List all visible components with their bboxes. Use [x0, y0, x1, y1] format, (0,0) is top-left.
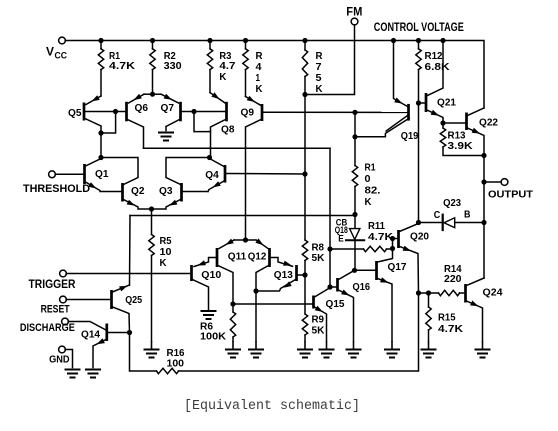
junction Q12 collector Q13 emitter gnd	[253, 288, 258, 293]
transistor Q7	[179, 102, 182, 122]
junction control voltage node	[302, 92, 307, 97]
transistor Q15	[312, 296, 315, 309]
wire Q23 anode to output	[455, 222, 484, 224]
junction Q3 Q4 Q8 collectors	[207, 155, 212, 160]
wire R7 top lead	[304, 41, 306, 51]
arrowhead Q6 emitter	[134, 94, 142, 100]
junction R2 emitters node	[150, 92, 155, 97]
transistor Q25	[110, 290, 113, 309]
wire Q6 base	[116, 111, 127, 113]
arrowhead Q20 emitter	[403, 246, 411, 251]
svg-text:3.9K: 3.9K	[448, 140, 473, 152]
junction Q20 collector Q23	[416, 220, 421, 225]
svg-text:Q17: Q17	[388, 261, 407, 273]
wire R15 bottom lead	[428, 330, 430, 341]
wire Q3 base from Q4 emitter	[183, 191, 209, 193]
ground Q24 stem	[482, 341, 484, 350]
wire Q19 emitter2 upper	[386, 115, 408, 131]
arrowhead Q5 emitter	[92, 95, 100, 101]
wire Q15 base line	[233, 303, 313, 305]
wire Q6 emitter diagonal	[129, 94, 145, 103]
junction Q19 emitter2 to R10	[352, 134, 357, 139]
svg-text:Q3: Q3	[159, 185, 173, 197]
wire R11 right lead	[387, 248, 393, 250]
wire R15 top lead	[428, 293, 430, 307]
svg-text:Q7: Q7	[161, 102, 175, 114]
svg-text:Q8: Q8	[221, 123, 235, 135]
arrowhead Q19 emitter1	[394, 98, 402, 104]
ground Q14	[85, 370, 101, 378]
wire R7 to control voltage node	[304, 77, 306, 95]
ground Q24	[475, 350, 491, 358]
svg-text:Q6: Q6	[135, 102, 149, 114]
wire R9 bottom lead	[304, 335, 306, 341]
wire reset to Q25 base	[66, 299, 111, 301]
junction Q7 Q8 base node	[191, 109, 196, 114]
wire Q2 emitter	[124, 200, 152, 210]
wire Q12 collector	[256, 266, 269, 342]
svg-text:RESET: RESET	[41, 304, 70, 316]
wire Q1 collector	[86, 158, 102, 167]
ground Q16 emitter	[346, 350, 362, 358]
wire trigger to Q10 base	[66, 273, 191, 275]
svg-text:TRIGGER: TRIGGER	[29, 279, 77, 291]
resistor R3	[207, 49, 212, 70]
junction Q14 Q25 collector node	[127, 330, 132, 335]
arrowhead Q4 emitter	[213, 181, 221, 187]
resistor R6	[230, 312, 235, 337]
transistor Q4	[224, 165, 227, 183]
wire Q21 base column	[418, 103, 420, 223]
resistor R11	[364, 246, 387, 251]
wire Q25 emitter	[113, 307, 130, 333]
wire Q10 emitter from Q11 base	[194, 258, 217, 267]
wire Q13 emitter	[256, 280, 296, 292]
wire R13 bottom to output node	[443, 147, 484, 156]
resistor R15	[426, 307, 431, 330]
wire output terminal	[484, 181, 501, 183]
transistor Q16	[336, 278, 339, 292]
svg-text:Q24: Q24	[483, 287, 503, 299]
resistor R8	[302, 240, 307, 261]
svg-text:Q1: Q1	[95, 168, 109, 180]
arrowhead Q2 emitter	[127, 200, 135, 206]
svg-text:K: K	[316, 83, 323, 95]
wire Q12 emitter diagonal	[256, 240, 268, 249]
wire Q7-Q8 base to Q8 collector	[194, 112, 211, 132]
wire R8 top lead	[304, 174, 306, 240]
arrowhead Q1 emitter	[88, 182, 96, 188]
junction rail R1	[98, 38, 103, 43]
svg-text:DISCHARGE: DISCHARGE	[20, 322, 75, 334]
wire Q17 base	[355, 269, 377, 271]
diode Q23	[444, 218, 455, 228]
wire R3 to Q8 emitter	[209, 70, 211, 93]
wire R2 to Q6 Q7 emitters	[152, 70, 154, 95]
junction Q21 emitter R13 Q22 base	[440, 120, 445, 125]
wire R10 tap	[354, 112, 356, 136]
svg-text:Q9: Q9	[241, 106, 255, 118]
ground Q17 stem	[391, 341, 393, 350]
wire Q11 emitter	[234, 239, 246, 241]
svg-text:K: K	[160, 257, 167, 269]
diode Q18	[350, 229, 360, 240]
wire R12 top lead	[418, 41, 420, 49]
svg-text:220: 220	[444, 273, 462, 285]
svg-text:5K: 5K	[312, 252, 325, 264]
wire Q12 emitter	[246, 239, 257, 241]
svg-text:THRESHOLD: THRESHOLD	[23, 183, 90, 195]
junction Q4 base R7 R8 reference	[302, 171, 307, 176]
svg-text:330: 330	[164, 60, 182, 72]
wire discharge to Q14 base	[68, 322, 106, 331]
terminal RESET	[60, 296, 67, 303]
arrowhead Q15 emitter	[315, 306, 323, 312]
wire R14 left lead	[419, 292, 439, 294]
transistor Q5	[83, 103, 86, 121]
wire R8 bottom lead	[304, 261, 306, 315]
arrowhead Q14 emitter	[97, 338, 105, 344]
ground GND terminal	[65, 370, 81, 378]
wire reset bus	[130, 216, 355, 229]
junction Q17 base Q16 collector Q18	[352, 268, 357, 273]
transistor Q6	[125, 102, 128, 122]
wire Q4 base to reference	[226, 173, 305, 176]
junction rail Q21 collector	[440, 38, 445, 43]
wire Q18 cathode	[354, 240, 356, 270]
terminal GND	[59, 346, 66, 353]
ground Q12 stem	[255, 341, 257, 350]
svg-text:5K: 5K	[312, 325, 325, 337]
wire R4 top lead	[245, 41, 247, 49]
svg-text:Q22: Q22	[479, 116, 498, 128]
ground Q10	[201, 311, 217, 319]
resistor R2	[150, 49, 155, 70]
wire Q9 collector	[246, 120, 262, 241]
terminal TRIGGER	[60, 270, 67, 277]
junction rail R3	[207, 38, 212, 43]
ground Q15 emitter	[319, 350, 335, 358]
svg-text:4.7K: 4.7K	[438, 323, 463, 335]
terminal FM	[351, 18, 358, 25]
svg-text:OUTPUT: OUTPUT	[488, 189, 534, 201]
resistor R10	[352, 166, 357, 187]
arrowhead Q17 emitter	[380, 277, 388, 282]
arrowhead Q12 emitter	[255, 238, 263, 245]
wire FM to control-voltage node	[305, 25, 355, 95]
ground R5 stem	[151, 341, 153, 350]
wire reference divider column	[304, 95, 306, 175]
junction R11 left Q18 E node	[327, 246, 332, 251]
diode Q23 cathode bar	[442, 214, 444, 232]
wire Q7 base to Q8	[181, 111, 226, 113]
arrowhead Q21 emitter	[431, 110, 439, 116]
svg-text:R1: R1	[365, 161, 376, 173]
wire output column	[483, 156, 485, 279]
arrowhead Q8 emitter	[211, 92, 219, 99]
junction Q5 Q6 base node	[113, 109, 118, 114]
svg-text:Q13: Q13	[274, 269, 293, 281]
wire Q15 collector	[315, 288, 330, 297]
wire Q17 emitter	[378, 279, 393, 342]
ground R15	[421, 350, 437, 358]
transistor Q20	[397, 230, 400, 248]
junction base line R10 tap	[352, 110, 357, 115]
transistor Q13	[295, 265, 298, 281]
transistor Q19	[407, 104, 410, 121]
wire Q24 emitter	[467, 301, 483, 341]
wire Q8 collector	[211, 120, 226, 158]
transistor Q22	[465, 113, 468, 131]
resistor R13	[440, 128, 445, 147]
wire Q3 emitter	[152, 200, 181, 210]
svg-text:Q12: Q12	[248, 250, 267, 262]
transistor Q2	[121, 183, 124, 202]
ground Q15 stem	[326, 341, 328, 350]
arrowhead Q13 emitter top	[283, 261, 291, 266]
wire Q7 collector	[166, 120, 180, 131]
wire R2 top lead	[152, 41, 154, 49]
wire Q16 emitter	[339, 290, 354, 341]
junction Q11 Q12 emitters	[243, 237, 248, 242]
wire Q20 emitter	[400, 247, 419, 294]
wire Q16 base	[330, 286, 337, 288]
transistor Q8	[225, 102, 228, 122]
wire Q6 collector to bus	[128, 120, 144, 149]
wire Q7 emitter diagonal	[161, 94, 179, 103]
resistor R9	[302, 314, 307, 335]
wire R6 bottom lead	[232, 337, 234, 341]
ground Q16 stem	[353, 341, 355, 350]
wire Q12 base to Q13	[270, 258, 293, 267]
terminal OUTPUT	[501, 179, 508, 186]
wire Q24 collector	[467, 278, 485, 286]
arrowhead Q16 emitter	[341, 290, 349, 296]
arrowhead Q22 emitter	[472, 128, 480, 134]
arrowhead Q24 emitter	[470, 301, 478, 307]
svg-text:6.8K: 6.8K	[425, 61, 450, 73]
ground R15 stem	[428, 341, 430, 350]
svg-text:Q5: Q5	[68, 107, 82, 119]
wire Q21 base	[419, 102, 426, 104]
svg-text:100: 100	[167, 358, 185, 370]
wire R10 bottom lead	[354, 187, 356, 215]
arrowhead Q11 emitter	[226, 239, 234, 245]
terminal VCC	[59, 37, 66, 44]
resistor R14	[439, 290, 460, 295]
transistor Q24	[464, 284, 467, 303]
wire R11 left lead	[330, 248, 364, 250]
junction R10 bottom Q18 anode	[352, 212, 357, 217]
svg-text:CC: CC	[55, 50, 68, 60]
wire R3 top lead	[209, 41, 211, 49]
transistor Q3	[180, 183, 183, 202]
wire Q19 emitter1 from rail	[394, 41, 408, 107]
wire bottom rail left	[130, 333, 157, 372]
junction R8 R9 Q13 base	[302, 272, 307, 277]
wire Q14 collector	[108, 332, 130, 334]
junction rail Q19 emitter	[391, 38, 396, 43]
junction Q2 Q3 emitters R5	[149, 206, 154, 211]
junction R11 right	[390, 246, 395, 251]
svg-text:V: V	[46, 45, 54, 59]
svg-text:Q14: Q14	[81, 328, 100, 340]
wire R1 top lead	[100, 41, 102, 49]
arrowhead Q7 emitter	[164, 94, 172, 100]
wire Q10 collector	[193, 280, 209, 310]
svg-text:Q11: Q11	[228, 250, 247, 262]
junction rail R12	[416, 38, 421, 43]
wire R1 to Q5 emitter	[100, 70, 102, 96]
wire R4 to Q9 emitter	[245, 70, 247, 97]
terminal THRESHOLD	[49, 171, 56, 178]
svg-text:GND: GND	[49, 354, 70, 365]
junction R15 top	[426, 290, 431, 295]
svg-text:B: B	[464, 208, 471, 220]
wire R5 top lead	[151, 209, 153, 235]
svg-text:K: K	[219, 71, 226, 83]
wire reset bus drop	[129, 216, 132, 286]
wire R14 right lead	[460, 292, 466, 294]
svg-text:82.: 82.	[365, 185, 381, 197]
arrowhead Q10 emitter	[198, 260, 206, 265]
wire Q16 collector	[339, 270, 355, 279]
wire Q8 emitter diagonal	[210, 93, 225, 103]
wire Q20 base lead	[393, 238, 399, 240]
ground R9 stem	[304, 341, 306, 350]
wire Q6 emitter	[144, 93, 153, 95]
transistor Q10	[190, 265, 193, 281]
wire bus down to R11 Q16	[329, 148, 331, 287]
ground Q7 collector	[158, 133, 174, 141]
wire Q21 emitter	[427, 110, 443, 123]
arrowhead Q3 emitter	[169, 200, 177, 206]
svg-text:Q20: Q20	[410, 230, 429, 242]
wire Q13 base	[297, 274, 305, 276]
transistor Q1	[83, 164, 86, 184]
transistor Q21	[425, 93, 428, 112]
wire Q5 collector	[85, 119, 101, 158]
svg-text:R15: R15	[438, 312, 456, 324]
wire Q22 emitter	[468, 128, 485, 156]
arrowhead Q25 collector	[119, 286, 127, 292]
ground R6 stem	[232, 341, 234, 350]
transistor Q17	[375, 261, 378, 280]
svg-text:Q25: Q25	[125, 294, 142, 306]
svg-text:0: 0	[365, 173, 371, 185]
svg-text:Q23: Q23	[443, 197, 461, 209]
resistor R1	[98, 49, 103, 70]
wire Q11 collector	[218, 266, 233, 313]
svg-text:Q4: Q4	[205, 169, 219, 181]
wire R5 bottom lead	[151, 256, 153, 342]
transistor Q11	[216, 248, 219, 267]
wire Q22 base	[443, 122, 466, 124]
ground Q17 emitter	[384, 350, 400, 358]
svg-text:Q15: Q15	[326, 298, 345, 310]
wire Q9 emitter diagonal	[246, 97, 261, 106]
svg-text:100K: 100K	[200, 331, 226, 343]
resistor R4	[243, 49, 248, 70]
wire gnd terminal	[65, 350, 72, 368]
wire Q5 collector-base tie	[101, 112, 116, 134]
resistor R5	[149, 235, 154, 256]
junction Q1 Q2 Q5 collectors	[98, 155, 103, 160]
wire threshold to Q1 base	[55, 173, 84, 175]
arrowhead Q13 emitter	[284, 281, 292, 287]
junction rail R4	[243, 38, 248, 43]
svg-text:K: K	[365, 196, 372, 208]
junction Q16 base Q15 collector	[327, 284, 332, 289]
junction output terminal	[481, 179, 486, 184]
wire Q3 collector	[166, 158, 210, 185]
junction Q21 base R12	[416, 100, 421, 105]
svg-text:Q19: Q19	[401, 130, 419, 142]
svg-text:C: C	[434, 209, 441, 221]
wire Q9 Q19 base line	[263, 111, 409, 113]
wire R13 top lead	[442, 123, 444, 128]
diode Q18 cathode bar	[345, 239, 365, 241]
wire flipflop bus	[144, 147, 331, 149]
wire Q7 emitter	[153, 93, 162, 95]
svg-text:4.7K: 4.7K	[368, 231, 393, 243]
svg-text:K: K	[256, 83, 263, 95]
svg-text:Q21: Q21	[437, 96, 456, 108]
wire Q19 emitter2 lower	[355, 118, 409, 137]
wire Q2 collector	[101, 158, 138, 185]
resistor R7	[302, 50, 307, 77]
wire Q4 collector	[210, 159, 225, 167]
wire Q25 collector	[113, 285, 130, 292]
junction Q20 base	[390, 236, 395, 241]
resistor R16	[157, 368, 179, 373]
wire Q21 collector	[428, 41, 444, 96]
wire R12 to Q21 base node	[418, 70, 420, 103]
ground Q12 Q13	[248, 350, 264, 358]
wire Q1 emitter to Q2 base	[86, 182, 123, 192]
wire Q4 emitter	[208, 181, 224, 192]
ground R6	[225, 350, 241, 358]
ground R9	[297, 350, 313, 358]
svg-text:Q2: Q2	[131, 185, 145, 197]
wire bottom rail right	[179, 293, 419, 371]
resistor R12	[416, 49, 421, 70]
junction Q23 output column	[481, 220, 486, 225]
svg-text:Q10: Q10	[201, 269, 221, 281]
junction Q20 emitter R14 R15	[416, 290, 421, 295]
wire Q23 cathode lead	[419, 222, 443, 224]
wire Q5 base to node	[85, 111, 116, 113]
junction Q5 collector tie	[98, 130, 103, 135]
transistor Q12	[268, 248, 271, 267]
junction rail R7	[302, 38, 307, 43]
svg-text:4.7K: 4.7K	[109, 60, 135, 72]
wire R10 top lead	[354, 137, 356, 166]
junction rail R2	[150, 38, 155, 43]
junction Q11 collector R6 Q15 base	[230, 301, 235, 306]
transistor Q9	[261, 104, 264, 121]
wire Q20 base column	[378, 239, 393, 263]
wire Q11 emitter diagonal	[219, 240, 234, 249]
wire Q5 emitter diagonal	[86, 96, 101, 105]
arrowhead Q9 emitter	[247, 96, 255, 102]
wire Q20 collector	[400, 223, 419, 232]
wire Q15 emitter	[315, 307, 327, 341]
svg-text:CONTROL VOLTAGE: CONTROL VOLTAGE	[374, 20, 464, 34]
junction R13 output column	[481, 153, 486, 158]
svg-text:Q16: Q16	[353, 281, 371, 293]
transistor Q14	[105, 324, 108, 342]
